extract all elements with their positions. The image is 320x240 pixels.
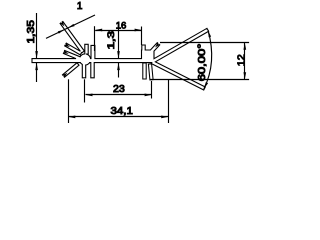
svg-text:12: 12 <box>235 54 247 66</box>
svg-text:16: 16 <box>116 21 127 32</box>
svg-text:1,35: 1,35 <box>26 20 37 44</box>
svg-text:60,00°: 60,00° <box>196 43 208 81</box>
svg-text:1: 1 <box>77 1 83 12</box>
svg-text:1,3: 1,3 <box>106 31 117 50</box>
svg-text:23: 23 <box>113 84 125 95</box>
svg-text:34,1: 34,1 <box>111 105 134 117</box>
